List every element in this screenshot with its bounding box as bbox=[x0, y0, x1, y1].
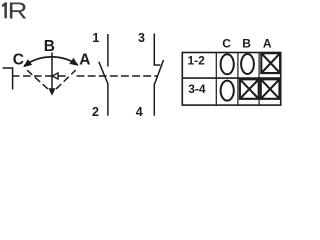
svg-text:R: R bbox=[8, 0, 28, 24]
detent (maintained position) symbol bbox=[3, 68, 19, 90]
state table row divider bbox=[182, 77, 280, 79]
svg-text:1-2: 1-2 bbox=[188, 54, 206, 68]
svg-text:3-4: 3-4 bbox=[188, 82, 206, 96]
state 1-2 at A: closed (crossed box) bbox=[261, 53, 280, 73]
contact 1-2 bottom terminal bbox=[107, 84, 109, 116]
position line A (dashed) bbox=[56, 70, 76, 89]
svg-text:4: 4 bbox=[136, 105, 143, 119]
svg-text:1: 1 bbox=[92, 31, 99, 45]
state 1-2 at B: open (circle) bbox=[241, 54, 254, 74]
state table column dividers bbox=[216, 53, 259, 106]
contact 1-2 top terminal bbox=[107, 34, 109, 67]
svg-text:C: C bbox=[222, 37, 231, 51]
position line C (dashed) bbox=[26, 70, 48, 89]
mechanical linkage left segment (dashed) bbox=[19, 75, 52, 77]
arc arrowhead toward C bbox=[23, 59, 32, 67]
arc arrowhead toward A bbox=[69, 58, 78, 66]
svg-text:B: B bbox=[44, 38, 55, 55]
contact 3-4 moving blade (break contact, closed) bbox=[155, 60, 164, 84]
svg-text:A: A bbox=[79, 51, 90, 68]
state 3-4 at C: open (circle) bbox=[221, 81, 234, 101]
state 3-4 at B: closed (crossed box) bbox=[240, 79, 259, 99]
svg-text:B: B bbox=[242, 37, 251, 51]
state 3-4 at A: closed (crossed box) bbox=[261, 79, 280, 99]
svg-text:A: A bbox=[263, 37, 272, 51]
state 1-2 at C: open (circle) bbox=[221, 54, 234, 74]
switch designator 1R bbox=[2, 2, 7, 18]
actuator line B (solid) bbox=[51, 53, 53, 90]
actuator arrowhead bbox=[48, 88, 55, 96]
contact 3-4 bottom terminal bbox=[153, 84, 155, 116]
linkage position pointer (open triangle) bbox=[52, 73, 58, 79]
contact 3-4 top terminal with seat hook bbox=[154, 34, 160, 66]
svg-text:C: C bbox=[13, 52, 24, 69]
rotation arc bbox=[24, 57, 78, 66]
contact 1-2 moving blade (make contact, open) bbox=[99, 62, 108, 84]
mechanical linkage right segment (dashed) bbox=[58, 75, 157, 77]
svg-text:2: 2 bbox=[92, 105, 99, 119]
state table outer frame bbox=[182, 53, 280, 106]
svg-text:3: 3 bbox=[138, 31, 145, 45]
